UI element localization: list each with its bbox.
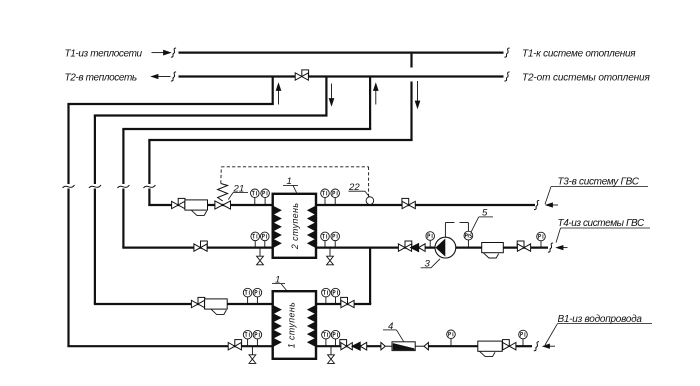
valve at HX2 primary inlet — [172, 198, 185, 208]
pressure switch PIS — [464, 231, 473, 247]
filter 4 — [385, 342, 424, 351]
manometer PI at HX2 dhw inlet — [331, 232, 340, 248]
svg-text:Т3-в систему ГВС: Т3-в систему ГВС — [558, 177, 640, 188]
valve on T4 before pump — [398, 241, 411, 251]
flow arrow B1 — [543, 344, 555, 348]
label 4 — [383, 321, 404, 342]
svg-text:4: 4 — [388, 321, 393, 332]
manometer PI on B1 inlet — [519, 330, 528, 346]
valve at HX1 dhw outlet — [341, 297, 354, 307]
wire manifold y104 — [67, 103, 273, 105]
label B1 from water supply — [545, 314, 652, 345]
break on x94 — [89, 185, 101, 188]
manometer PI at HX2 hot inlet — [261, 189, 270, 205]
wire T3 line — [316, 204, 535, 206]
thermometer TI at HX2 dhw inlet — [321, 232, 330, 248]
pipe break B1 — [534, 342, 539, 351]
dirt trap at HX2 primary inlet — [185, 200, 208, 216]
wire riser HX2 return to T2 — [369, 78, 371, 130]
wire riser HX1 dhw outlet — [369, 248, 371, 304]
wire manifold y129 — [122, 128, 371, 130]
svg-text:1 ступень: 1 ступень — [287, 302, 297, 349]
pump 3 — [435, 237, 456, 258]
wire riser T1 to HX2 supply upper — [410, 54, 412, 68]
valve on T2 main — [295, 70, 308, 80]
sensor 2.2 on T3 — [366, 197, 374, 205]
wire riser T2 to HX1 supply — [325, 78, 327, 116]
break on x149 — [143, 185, 155, 188]
reducer after filter — [424, 343, 428, 350]
thermometer TI at HX2 hot outlet — [251, 232, 260, 248]
pipe break T2 left — [171, 72, 176, 81]
break on x123 — [117, 185, 129, 188]
dirt trap on T4 — [482, 243, 504, 259]
flow arrow T3 — [546, 203, 558, 207]
flow arrow out of T2 — [152, 74, 171, 78]
wire T1 supply main — [179, 51, 504, 53]
HX2 left coil — [274, 207, 281, 247]
dirt trap at HX1 primary inlet — [205, 299, 228, 315]
wire manifold y140 — [148, 139, 412, 141]
thermometer TI at HX1 hot outlet — [243, 330, 252, 346]
flow arrow down from T2 at x326 — [329, 84, 334, 106]
wire left drop x68 upper — [67, 104, 69, 184]
drain under HX1 left outlet — [249, 346, 256, 363]
check valve on B1 — [352, 342, 367, 350]
wire HX2 primary outlet pipe — [122, 247, 272, 249]
flow arrow into T1 — [152, 50, 171, 55]
drain under HX1 right inlet — [328, 346, 335, 363]
manometer PI at HX2 dhw outlet — [331, 189, 340, 205]
svg-text:Т1-из теплосети: Т1-из теплосети — [65, 49, 143, 60]
flow arrow down from T1 at x411 — [415, 81, 420, 108]
pipe break T1 right — [504, 48, 509, 57]
label 1 for HX1 — [272, 274, 287, 291]
heat exchanger 2 (1 stage) body — [273, 291, 316, 359]
thermometer TI at HX1 hot inlet — [243, 288, 252, 304]
label 3 — [421, 259, 440, 270]
wire manifold y115 — [94, 114, 328, 116]
pump control line — [445, 223, 468, 238]
drain under HX2 left outlet — [257, 248, 264, 265]
wire T2 return main left — [179, 75, 296, 77]
manometer PI at HX1 hot inlet — [253, 288, 262, 304]
wire left drop x149 lower — [148, 189, 150, 206]
wire B1 line segment 1 — [316, 345, 381, 347]
label T2 to heat network — [65, 73, 137, 84]
manometer PI at HX2 hot outlet — [261, 232, 270, 248]
break on x68 — [63, 185, 75, 188]
HX1 left coil — [274, 306, 281, 346]
valve on T3 line — [402, 198, 415, 208]
svg-text:Т4-из системы ГВС: Т4-из системы ГВС — [558, 218, 645, 229]
heat exchanger 1 (2 stage) body — [273, 194, 316, 258]
label 2.1 — [228, 183, 248, 199]
pipe break T2 right — [504, 72, 509, 81]
wire HX1 dhw outlet pipe — [316, 303, 371, 305]
wire T4 pump line — [316, 247, 548, 249]
wire riser T1 to HX2 supply lower — [410, 82, 412, 141]
pipe break T1 left — [171, 48, 176, 57]
label 5 — [471, 208, 493, 232]
HX1 stage label — [287, 302, 297, 349]
dirt trap water meter on B1 — [478, 341, 502, 357]
manometer PI at HX1 dhw inlet — [331, 330, 340, 346]
wire left drop x68 lower — [67, 189, 69, 347]
manometer PI on T4 inlet — [537, 232, 546, 247]
valve at HX2 primary outlet — [194, 241, 207, 251]
impulse line from actuator 2.1 — [221, 167, 369, 197]
wire T2 return main right — [308, 75, 503, 77]
manometer PI on B1 after filter — [447, 330, 456, 346]
wire left drop x123 upper — [122, 129, 124, 184]
HX2 stage label — [290, 203, 300, 251]
flow arrow up into T2 at x370 — [374, 84, 379, 105]
control valve 2.1 with spring actuator — [215, 184, 231, 210]
thermometer TI at HX2 hot inlet — [251, 189, 260, 205]
wire left drop x94 lower — [94, 189, 96, 305]
wire left drop x94 upper — [94, 116, 96, 185]
label 1 for HX2 — [283, 176, 298, 193]
wire HX2 primary inlet pipe — [148, 204, 272, 206]
pipe break T4 — [548, 243, 553, 252]
svg-text:2 ступень: 2 ступень — [290, 203, 300, 251]
valve on T4 at inlet — [517, 241, 530, 251]
drain under HX2 right inlet — [327, 248, 334, 265]
wire HX1 primary inlet pipe — [94, 303, 273, 305]
label 2.2 — [348, 182, 370, 197]
valve at HX1 primary outlet — [228, 340, 241, 350]
valve on B1 inlet — [503, 340, 516, 350]
wire riser HX1 return to T2 — [272, 78, 274, 105]
flow arrow T4 — [557, 246, 568, 250]
label T2 from heating system — [522, 73, 650, 84]
manometer PI at HX1 hot outlet — [253, 330, 262, 346]
reducer before filter — [381, 343, 385, 350]
manometer PI at HX1 dhw outlet — [331, 288, 340, 304]
HX1 right coil — [308, 306, 315, 346]
flow arrow up into T2 at x272 — [276, 84, 281, 105]
label T3 to DHW system — [545, 177, 648, 205]
valve on B1 at HX1 — [340, 340, 353, 350]
thermometer TI at HX1 dhw inlet — [322, 330, 331, 346]
check valve on T4 — [411, 244, 426, 252]
valve at HX1 primary inlet — [191, 297, 204, 307]
wire HX1 primary outlet pipe — [67, 345, 272, 347]
pipe break T3 — [534, 200, 539, 209]
svg-text:Т2-от системы отопления: Т2-от системы отопления — [522, 73, 650, 84]
svg-text:Т2-в теплосеть: Т2-в теплосеть — [65, 73, 137, 84]
wire left drop x149 upper — [148, 140, 150, 184]
wire B1 line segment 3 — [516, 345, 532, 347]
wire left drop x123 lower — [122, 189, 124, 248]
svg-text:Т1-к системе отопления: Т1-к системе отопления — [522, 49, 636, 60]
thermometer TI at HX2 dhw outlet — [321, 189, 330, 205]
label T1 from heat network — [65, 49, 143, 60]
manometer PI before pump — [426, 232, 435, 248]
label T1 to heating system — [522, 49, 636, 60]
label T4 from DHW system — [556, 218, 650, 243]
wire B1 line segment 2 — [428, 345, 477, 347]
thermometer TI at HX1 dhw outlet — [322, 288, 331, 304]
HX2 right coil — [308, 207, 315, 247]
